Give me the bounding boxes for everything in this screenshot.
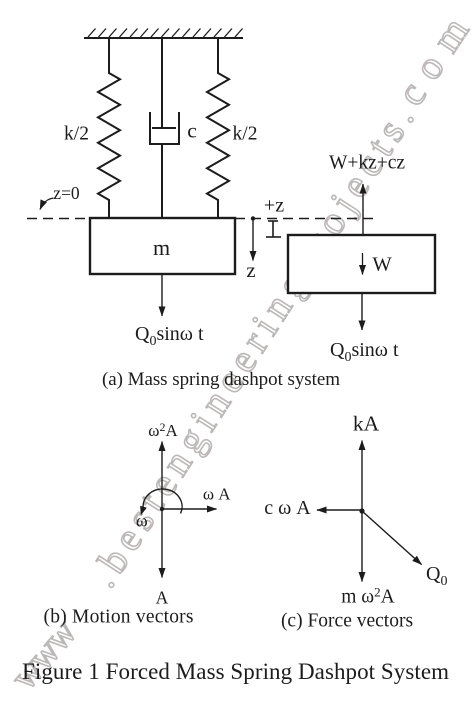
- svg-text:ω: ω: [136, 511, 148, 531]
- svg-text:z=0: z=0: [53, 183, 80, 203]
- svg-text:k/2: k/2: [64, 124, 89, 145]
- svg-text:+z: +z: [264, 195, 284, 217]
- svg-text:(b) Motion vectors: (b) Motion vectors: [44, 607, 194, 628]
- svg-text:kA: kA: [353, 412, 380, 436]
- svg-text:z: z: [246, 258, 255, 282]
- svg-text:k/2: k/2: [233, 124, 258, 145]
- svg-text:W+kz+cz: W+kz+cz: [329, 153, 405, 174]
- svg-text:m: m: [153, 235, 170, 260]
- svg-text:Q0sinω t: Q0sinω t: [330, 339, 399, 365]
- svg-text:(a) Mass spring dashpot system: (a) Mass spring dashpot system: [102, 369, 340, 390]
- svg-text:A: A: [156, 588, 169, 608]
- svg-text:m ω2A: m ω2A: [341, 585, 394, 608]
- svg-text:Figure 1 Forced Mass Spring Da: Figure 1 Forced Mass Spring Dashpot Syst…: [22, 659, 449, 684]
- svg-text:W: W: [372, 254, 392, 276]
- svg-text:com: com: [387, 9, 474, 113]
- svg-text:ω2A: ω2A: [148, 420, 178, 440]
- svg-text:ω A: ω A: [203, 485, 231, 504]
- svg-text:c: c: [187, 119, 197, 143]
- svg-text:(c) Force vectors: (c) Force vectors: [281, 611, 413, 632]
- svg-text:c ω A: c ω A: [264, 497, 311, 519]
- svg-text:Q0: Q0: [426, 563, 447, 589]
- svg-text:Q0sinω t: Q0sinω t: [135, 323, 204, 349]
